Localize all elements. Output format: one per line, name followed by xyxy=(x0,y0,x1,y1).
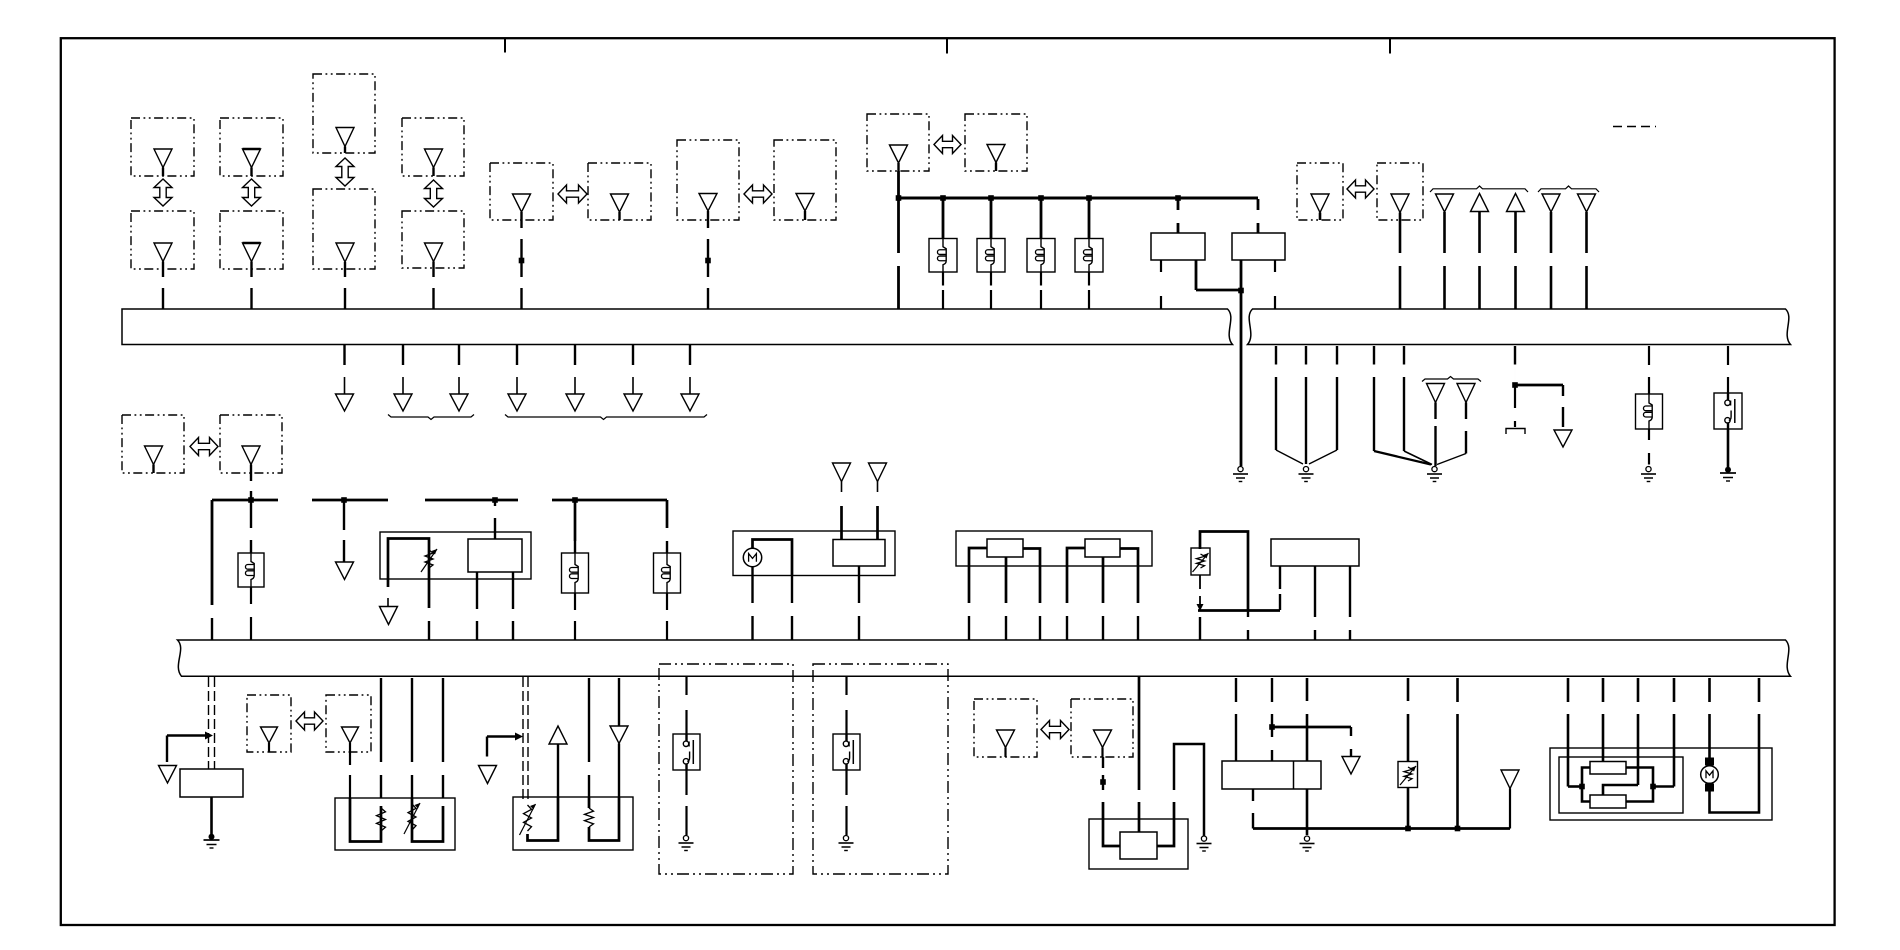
feed wire to switch S1 xyxy=(1727,346,1729,393)
wire bus to U8 xyxy=(411,678,413,798)
connector C10 left box xyxy=(122,415,184,473)
harness branch arrow xyxy=(681,345,699,411)
junction xyxy=(1175,195,1181,201)
junction xyxy=(248,497,254,503)
junction connector W3 xyxy=(1507,194,1525,310)
wire bus to node xyxy=(1456,678,1459,829)
harness branch arrow xyxy=(1554,385,1572,447)
sensor element R1 xyxy=(987,539,1023,557)
resistor R6 xyxy=(1590,795,1626,808)
junction xyxy=(572,497,578,503)
connector C1 lower box xyxy=(131,211,194,269)
variable resistor VR4 xyxy=(520,804,536,835)
resistor R4 xyxy=(585,808,594,827)
connector C1 upper box xyxy=(131,118,194,176)
relay unit U1 xyxy=(1151,233,1205,260)
wire from K1 to bus xyxy=(942,272,944,309)
group brace xyxy=(1538,186,1599,192)
junction connector W2 xyxy=(1471,194,1489,310)
internal wire xyxy=(1005,557,1008,603)
door unit boundary (left) xyxy=(659,664,793,874)
antenna connector xyxy=(1501,770,1519,829)
wire bus to U11 pin3 xyxy=(1306,678,1309,761)
junction xyxy=(1455,826,1461,832)
wire U1 pin 1 to bus xyxy=(1160,260,1162,309)
wire to bus xyxy=(1247,611,1249,640)
node wire xyxy=(1198,609,1280,612)
harness branch arrow xyxy=(394,345,412,411)
wire from C4 to bus xyxy=(432,268,434,309)
feed wire to relay coil K5 xyxy=(1648,346,1650,394)
relay coil K5 xyxy=(1636,394,1663,429)
junction xyxy=(341,497,347,503)
relay coil K6 xyxy=(238,553,264,587)
internal wire xyxy=(1157,802,1174,846)
connector C13 right box xyxy=(326,695,371,752)
staple wire xyxy=(1174,744,1204,836)
internal wire xyxy=(1120,549,1138,604)
sensor unit U8 xyxy=(335,798,455,850)
motor M1 xyxy=(743,548,761,566)
connector C6 left box xyxy=(677,140,739,220)
inline connector arrow (C1) xyxy=(154,179,172,206)
ground node wire xyxy=(1253,827,1510,830)
wire harness bus (upper right segment) xyxy=(1248,309,1791,345)
wire U2 pin 2 to bus xyxy=(1274,260,1276,309)
connector C3 lower box xyxy=(313,189,375,269)
wire bus to U11 pin2 xyxy=(1271,678,1273,761)
internal wire xyxy=(1103,802,1120,846)
ground wire through bus break xyxy=(1240,291,1243,466)
junction connector W1 xyxy=(1436,194,1454,309)
internal wire xyxy=(1067,548,1085,603)
branch wire with arrow xyxy=(487,733,523,757)
connector C14 right box xyxy=(1071,699,1133,757)
ground G4 xyxy=(1641,467,1656,482)
wire to bus xyxy=(1102,616,1104,640)
inline connector arrow (C10) xyxy=(190,438,218,456)
wire bus to motor return xyxy=(1758,678,1761,702)
relay box U11 xyxy=(1222,761,1321,789)
door unit boundary (right) xyxy=(813,664,948,874)
ground G9 xyxy=(1197,836,1212,851)
connector C4 upper box xyxy=(402,118,464,176)
variable resistor VR5 xyxy=(1398,762,1418,788)
switch S2 xyxy=(673,734,700,770)
junction xyxy=(1512,382,1518,388)
wire bus to U11 pin1 xyxy=(1235,678,1237,761)
junction xyxy=(988,195,994,201)
wire xyxy=(618,776,620,797)
wire to bus xyxy=(1066,616,1068,640)
wire from K8 to bus xyxy=(666,593,668,640)
sensor module U5 xyxy=(956,531,1152,566)
ground G1 xyxy=(1233,467,1248,482)
feed wire to relay coil K7 xyxy=(574,501,577,541)
wire from C10 xyxy=(250,473,252,500)
input arrow connector xyxy=(610,678,628,776)
inline connector arrow (C8) xyxy=(1347,180,1374,198)
group underbrace xyxy=(505,415,707,420)
feed wire to relay coil K1 xyxy=(942,199,945,239)
internal wire xyxy=(1200,532,1248,611)
junction connector W6 xyxy=(1427,384,1445,467)
wire harness bus (upper left segment) xyxy=(122,309,1233,345)
control unit U6 xyxy=(1271,539,1359,566)
junction xyxy=(1405,826,1411,832)
junction xyxy=(1238,288,1244,294)
wire bus to U12 pin1 xyxy=(1568,678,1582,787)
wire from C8 to bus xyxy=(1399,220,1402,309)
internal wire of U3 xyxy=(388,539,429,609)
jumper wire with arrow xyxy=(1272,727,1351,756)
junction connector W5 xyxy=(1578,194,1596,309)
variable resistor VR2 xyxy=(1191,548,1210,575)
harness branch arrow xyxy=(159,766,177,784)
connector C14 left box xyxy=(974,699,1037,757)
junction xyxy=(896,195,902,201)
wire S2 to ground xyxy=(685,770,687,835)
connector C8 right box xyxy=(1377,163,1423,220)
relay coil K7 xyxy=(562,541,589,593)
feed wire to relay coil K3 xyxy=(1040,199,1043,239)
wire bus to R5 xyxy=(1602,678,1605,762)
wire from C5 to bus xyxy=(520,220,522,309)
connector C3 upper box xyxy=(313,74,375,153)
output arrow connector xyxy=(549,726,567,797)
inline connector arrow (C6) xyxy=(744,185,772,203)
shielded wire pair xyxy=(523,677,528,800)
harness branch arrow xyxy=(336,345,354,411)
connector C5 left box xyxy=(490,163,553,220)
wire to bus xyxy=(1005,616,1007,640)
wire from K5 to ground xyxy=(1648,429,1650,465)
feed wire to relay coil K6 xyxy=(250,501,252,553)
harness branch arrow xyxy=(624,345,642,411)
wire U3 to bus xyxy=(428,621,430,640)
inline connector arrow (C13) xyxy=(296,712,323,730)
internal wire of U8 xyxy=(412,798,443,842)
connector C6 right box xyxy=(774,140,836,220)
motor M2 xyxy=(1701,758,1719,792)
junction xyxy=(492,497,498,503)
harness branch arrow xyxy=(508,345,526,411)
inline connector arrow (C7) xyxy=(934,136,961,154)
group brace xyxy=(1430,186,1528,192)
harness branch arrow xyxy=(1342,757,1360,775)
splice junction on C5 wire xyxy=(519,258,525,264)
relay coil K2 xyxy=(977,239,1005,273)
sub-block in U12 xyxy=(1559,757,1683,813)
wire U7 to ground xyxy=(210,797,213,836)
wire from K6 to bus xyxy=(250,587,252,640)
relay coil K3 xyxy=(1027,239,1055,273)
motor module U4 xyxy=(733,531,895,576)
control module U3 xyxy=(380,532,531,579)
inline connector arrow (C5) xyxy=(558,185,587,203)
noise filter unit U7 xyxy=(180,769,243,797)
junction xyxy=(1269,724,1275,730)
wire from C2 to bus xyxy=(250,269,252,309)
wire from K3 to bus xyxy=(1040,272,1042,309)
power rail xyxy=(212,499,667,502)
power feed wire from C7 xyxy=(897,171,900,198)
wire bus to U12 pin4 xyxy=(1653,678,1674,787)
group brace xyxy=(1422,377,1481,382)
ground G10 xyxy=(1300,836,1315,851)
ground wire group xyxy=(1276,346,1337,464)
wire motor return xyxy=(1710,714,1760,813)
wire rail to bus xyxy=(211,500,214,640)
wire motor to bus xyxy=(751,567,753,640)
connector C2 lower box xyxy=(220,211,283,269)
switch S1 xyxy=(1714,393,1742,429)
wire from C14 xyxy=(1102,757,1104,790)
wire from C3 to bus xyxy=(344,269,346,309)
ground G7 xyxy=(679,836,694,851)
ground G8 xyxy=(839,836,854,851)
internal wire of U8 xyxy=(350,798,381,842)
wire from K7 to bus xyxy=(574,593,576,640)
splice junction on C6 wire xyxy=(705,258,711,264)
ground G2 xyxy=(1299,467,1314,482)
splice junction xyxy=(1100,779,1106,785)
wire U11 to ground xyxy=(1306,789,1309,835)
actuator module U10 xyxy=(1089,819,1188,869)
wire sub-unit pin 1 to bus xyxy=(476,572,478,640)
connector C7 right box xyxy=(965,114,1027,171)
sub-unit in U10 xyxy=(1120,832,1157,859)
connector C13 left box xyxy=(247,695,291,752)
branch wire with arrow xyxy=(167,732,213,763)
junction xyxy=(1086,195,1092,201)
wire with arrow to node xyxy=(1197,575,1204,611)
junction xyxy=(940,195,946,201)
resistor R5 xyxy=(1590,762,1626,775)
wire U6 pin 2 to bus xyxy=(1314,566,1316,640)
wire from C1 to bus xyxy=(162,269,164,309)
wire from K2 to bus xyxy=(990,272,992,309)
internal wire xyxy=(969,548,987,603)
sub-unit in U4 xyxy=(833,540,885,567)
relay unit U2 xyxy=(1232,233,1285,260)
shielded wire pair xyxy=(209,677,215,769)
inline connector arrow (C4) xyxy=(425,180,443,207)
variable resistor VR3 xyxy=(404,803,420,834)
wire U6 pin 3 to bus xyxy=(1349,566,1351,640)
wire from S1 to ground xyxy=(1727,429,1730,470)
inline connector arrow (C2) xyxy=(243,179,261,206)
wire U2 pin 1 xyxy=(1240,260,1243,290)
ground G5 xyxy=(1720,467,1736,481)
wire U4 pin 2 to bus xyxy=(791,575,793,640)
connector C2 upper box xyxy=(220,118,283,176)
relay coil K1 xyxy=(929,239,957,273)
connector C7 left box xyxy=(867,114,929,171)
feed wire to U1 xyxy=(1177,199,1180,233)
ground wire group xyxy=(1374,346,1432,465)
harness branch arrow xyxy=(566,345,584,411)
wire from bus with junction xyxy=(1514,346,1516,385)
reference dashes xyxy=(1613,126,1656,128)
terminal stub wire xyxy=(1514,387,1516,427)
wire bus to U8 xyxy=(380,678,382,798)
wire bus to VR5 xyxy=(1407,678,1410,762)
wire U11 to node xyxy=(1252,789,1254,829)
wire to bus xyxy=(1039,616,1041,640)
wire from C13 xyxy=(349,752,351,798)
feed wire to relay coil K8 xyxy=(666,500,669,553)
power distribution rail xyxy=(897,197,1258,200)
resistor R3 xyxy=(377,808,386,831)
internal wire xyxy=(1102,557,1105,603)
sensor element R2 xyxy=(1085,539,1120,557)
wire bus to switch S3 xyxy=(845,677,847,734)
connector C4 lower box xyxy=(402,211,464,268)
sensor unit U9 xyxy=(513,797,633,850)
wire bus to U8 xyxy=(442,678,444,798)
wire to bus xyxy=(968,616,970,640)
group underbrace xyxy=(388,415,474,420)
connector C8 left box xyxy=(1297,163,1343,220)
feed wire to relay coil K2 xyxy=(990,199,993,239)
jumper wire xyxy=(1515,384,1563,387)
junction connector W4 xyxy=(1542,194,1560,309)
variable resistor VR1 xyxy=(421,549,437,572)
wire VR5 to node xyxy=(1407,788,1410,829)
wire from C6 to bus xyxy=(707,220,709,309)
connector triangle xyxy=(833,463,851,540)
harness branch arrow xyxy=(336,501,354,580)
ground G6 xyxy=(204,834,220,848)
junction xyxy=(1579,784,1585,790)
harness branch arrow xyxy=(450,345,468,411)
motor control block U12 xyxy=(1550,748,1772,820)
junction xyxy=(1038,195,1044,201)
junction connector W7 xyxy=(1437,384,1475,465)
wire U4 pin 3 to bus xyxy=(858,566,860,640)
ground G3 xyxy=(1427,467,1442,482)
internal wire xyxy=(1582,768,1590,802)
feed wire to sub-unit xyxy=(494,501,496,539)
internal wire xyxy=(1023,549,1040,604)
wire bus to motor M2 xyxy=(1708,678,1711,758)
wire from rail to bus xyxy=(897,199,900,309)
wire U6 pin 1 xyxy=(1279,566,1281,610)
inline connector arrow (C14) xyxy=(1041,721,1069,739)
internal wire of U9 xyxy=(589,797,619,841)
inline connector arrow (C3) xyxy=(336,158,354,186)
internal wire of U4 xyxy=(753,540,793,576)
wire S3 to ground xyxy=(845,770,847,835)
wire sub-unit pin 2 to bus xyxy=(512,572,514,640)
sub-unit in U3 xyxy=(468,539,522,572)
terminal cap xyxy=(1506,429,1525,435)
internal wire xyxy=(1626,768,1653,802)
relay coil K4 xyxy=(1075,239,1103,273)
internal wire of U9 xyxy=(528,797,559,841)
feed wire to U2 xyxy=(1257,199,1260,233)
feed wire to relay coil K4 xyxy=(1088,199,1091,239)
wire U1 pin 2 xyxy=(1196,260,1241,290)
wire bus to R6 xyxy=(1603,678,1638,795)
wire to bus xyxy=(1199,617,1201,640)
connector C10 right box xyxy=(220,415,282,473)
wire from K4 to bus xyxy=(1088,272,1090,309)
harness branch arrow xyxy=(380,598,398,625)
wire to bus xyxy=(1137,616,1139,640)
switch S3 xyxy=(833,734,860,770)
connector triangle xyxy=(869,463,887,540)
wire bus to U9 xyxy=(588,678,590,797)
relay coil K8 xyxy=(654,553,681,593)
harness branch arrow xyxy=(479,766,497,784)
junction xyxy=(1650,784,1656,790)
wire harness bus (lower segment) xyxy=(178,640,1791,676)
wire bus to switch S2 xyxy=(685,677,687,734)
wire bus to U10 xyxy=(1138,677,1141,832)
connector C5 right box xyxy=(588,163,651,220)
